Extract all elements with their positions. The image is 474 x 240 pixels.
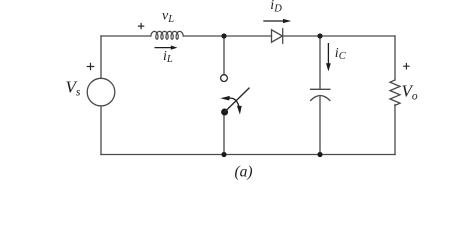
svg-text:(a): (a)	[235, 163, 253, 180]
